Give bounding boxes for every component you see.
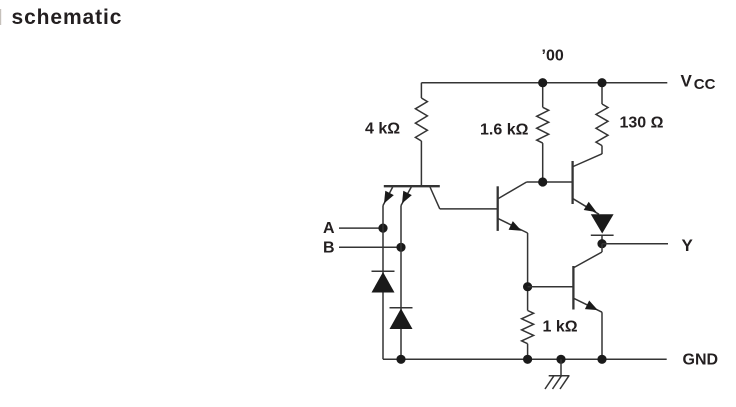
svg-text:’00: ’00 (542, 47, 564, 64)
transistor Q3 (upper output) (573, 154, 602, 215)
svg-text:A: A (323, 220, 335, 237)
svg-text:130 Ω: 130 Ω (620, 115, 664, 132)
node A junction dot (378, 224, 387, 233)
node junction dot VCC/R2 (538, 78, 547, 87)
wire Q2 emitter vertical to R4 (527, 233, 529, 311)
node junction dot Q2 emitter / Q4 base (523, 282, 532, 291)
scan artifact left edge (0, 9, 2, 25)
resistor R1 4 kOhm (415, 83, 427, 187)
diode D2 (input B clamp) (390, 308, 413, 329)
label VCC (681, 72, 716, 94)
resistor R2 1.6 kOhm (537, 83, 549, 182)
diode D1 (input A clamp) (372, 271, 395, 292)
transistor Q1 (multi-emitter input) (383, 186, 440, 209)
wire Q1 collector to Q2 base (440, 208, 498, 210)
node junction dot VCC/R3 (597, 78, 606, 87)
svg-text:B: B (323, 240, 335, 257)
wire input A (339, 227, 383, 229)
svg-text:Y: Y (682, 236, 694, 255)
wire output Y (602, 243, 668, 245)
wire GND rail (383, 358, 667, 360)
svg-text:schematic: schematic (12, 6, 123, 29)
node B junction dot (396, 243, 405, 252)
wire Q2 collector to Q3 base (527, 181, 573, 183)
ground symbol (545, 359, 570, 389)
diode D3 (output level shift) (591, 214, 614, 243)
node Y junction dot (597, 239, 606, 248)
node junction dot R4 / GND (523, 355, 532, 364)
resistor R3 130 Ohm (596, 83, 608, 154)
node junction dot B line / GND (396, 355, 405, 364)
wire VCC rail (421, 82, 667, 84)
wire Q4 base from Q2 emitter node (528, 286, 574, 288)
node junction dot R2/Q2 collector (538, 177, 547, 186)
node junction dot ground stem / GND (556, 355, 565, 364)
transistor Q2 (phase splitter) (498, 182, 528, 233)
svg-text:1 kΩ: 1 kΩ (543, 318, 578, 335)
wire emitter A vertical down to ground rail (382, 206, 384, 360)
wire emitter B vertical down to ground rail (400, 206, 402, 360)
wire input B (339, 246, 401, 248)
svg-text:4 kΩ: 4 kΩ (365, 121, 400, 138)
node junction dot Q4 emitter / GND (597, 355, 606, 364)
svg-text:1.6 kΩ: 1.6 kΩ (480, 122, 529, 139)
svg-text:CC: CC (694, 76, 716, 93)
resistor R4 1 kOhm (522, 311, 534, 360)
transistor Q4 (lower output) (573, 244, 602, 360)
svg-text:V: V (681, 72, 693, 91)
svg-text:GND: GND (683, 352, 719, 369)
